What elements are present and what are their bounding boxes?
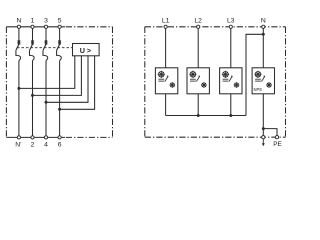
wire module L1 to bus — [165, 94, 167, 116]
svg-text:PE: PE — [273, 141, 282, 148]
switch blade column 5 — [58, 43, 61, 45]
svg-text:3: 3 — [44, 17, 48, 24]
enclosure left device: left border dash-dot — [5, 27, 7, 138]
enclosure left device: bottom border solid segment — [6, 136, 65, 138]
earth electrode arrow — [262, 139, 264, 144]
SPD symbol inside module L3 — [222, 71, 240, 88]
terminal 5 top — [58, 25, 61, 28]
wire U> pin4 to column 5 — [60, 56, 95, 110]
svg-text:NPE: NPE — [254, 87, 263, 92]
terminal L3 — [229, 25, 232, 28]
SPD module L3 — [220, 68, 242, 94]
SPD symbol inside module L2 — [189, 71, 207, 88]
wire column 3 upper — [45, 28, 47, 44]
svg-text:1: 1 — [31, 17, 35, 24]
wire U> pin3 to column 3 — [46, 56, 88, 103]
svg-text:N: N — [16, 17, 21, 24]
wire column 3 lower with s-jog — [43, 50, 48, 135]
junction node bus L2 — [197, 114, 200, 117]
svg-text:L3: L3 — [227, 17, 235, 24]
svg-text:L1: L1 — [162, 17, 170, 24]
svg-text:Nʼ: Nʼ — [15, 140, 22, 148]
junction node PE — [262, 127, 265, 130]
switch blade column 3 — [45, 43, 48, 45]
terminal PE bottom — [275, 136, 278, 139]
terminal earth bottom — [262, 136, 265, 139]
wire PE branch — [263, 129, 277, 136]
wire L1 down — [165, 28, 167, 67]
svg-text:4: 4 — [44, 141, 48, 148]
junction node bus L3 — [229, 114, 232, 117]
breakaway point x column 3 — [45, 41, 48, 44]
svg-text:6: 6 — [58, 141, 62, 148]
wire N branch to bus — [246, 34, 263, 115]
breakaway point x column N — [18, 41, 21, 44]
wire column 1 upper — [32, 28, 34, 44]
terminal N' bottom — [17, 136, 20, 139]
terminal 4 bottom — [44, 136, 47, 139]
SPD symbol inside module N-PE — [254, 71, 272, 88]
wire module L3 to bus — [230, 94, 232, 116]
svg-text:5: 5 — [58, 17, 62, 24]
junction node column N — [17, 87, 20, 90]
enclosure right device: bottom border dash-dot — [145, 136, 286, 138]
terminal 6 bottom — [58, 136, 61, 139]
switch blade column 1 — [31, 43, 34, 45]
enclosure left device: bottom border dash-dot segment — [66, 136, 113, 138]
breakaway point x column 1 — [31, 41, 34, 44]
terminal 3 top — [44, 25, 47, 28]
terminal L2 — [197, 25, 200, 28]
wire column N lower with s-jog — [16, 50, 21, 135]
junction node N branch — [262, 33, 265, 36]
SPD symbol inside module L1 — [158, 71, 176, 88]
wire module L2 to bus — [197, 94, 199, 116]
enclosure left device: right border dash-dot — [112, 27, 114, 138]
terminal 2 bottom — [31, 136, 34, 139]
wire U> pin1 to column N — [19, 56, 75, 89]
wire column 1 lower with s-jog — [30, 50, 35, 135]
SPD module L1 — [155, 68, 177, 94]
junction node column 3 — [45, 101, 48, 104]
wire NPE module to PE terminal — [262, 94, 264, 136]
wire L2 down — [197, 28, 199, 67]
switch blade column N — [18, 43, 21, 45]
terminal N top — [17, 25, 20, 28]
junction node column 5 — [58, 108, 61, 111]
enclosure right device: top border dash-dot — [145, 26, 286, 28]
terminal L1 — [164, 25, 167, 28]
terminal N right box — [262, 25, 265, 28]
monitoring device U> box — [73, 44, 100, 56]
enclosure right device: right border dash-dot — [285, 27, 287, 137]
junction node column 1 — [31, 94, 34, 97]
wire column 5 upper — [59, 28, 61, 44]
svg-text:L2: L2 — [194, 17, 202, 24]
svg-text:U >: U > — [80, 46, 91, 55]
svg-text:N: N — [261, 17, 266, 24]
terminal 1 top — [31, 25, 34, 28]
wire U> pin2 to column 1 — [33, 56, 82, 96]
svg-text:2: 2 — [31, 141, 35, 148]
enclosure right device: left border dash-dot — [144, 27, 146, 137]
wire column 5 lower with s-jog — [57, 50, 62, 135]
mechanical linkage dashed line — [17, 47, 73, 49]
wire N down to NPE module — [262, 28, 264, 67]
SPD module L2 — [187, 68, 209, 94]
bus N rail — [166, 115, 246, 117]
wire L3 down — [230, 28, 232, 67]
enclosure left device: top border dash-dot segment — [66, 26, 113, 28]
breakaway point x column 5 — [58, 41, 61, 44]
wire column N upper — [18, 28, 20, 44]
SPD module N-PE — [252, 68, 274, 94]
enclosure left device: top border solid segment — [6, 26, 65, 28]
